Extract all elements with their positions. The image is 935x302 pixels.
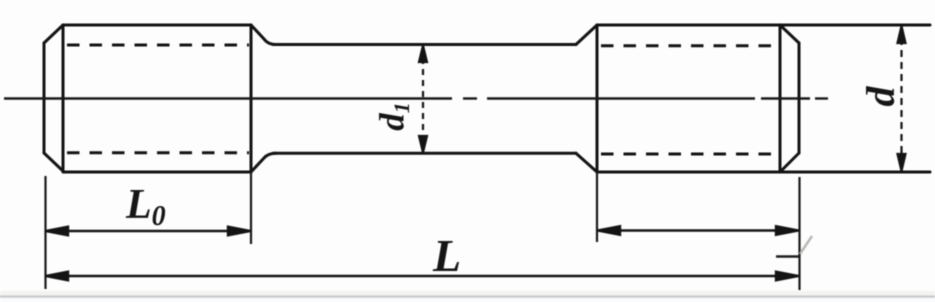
stud right end: bottom chamfer diagonal (780, 153, 799, 172)
svg-text:d: d (858, 86, 903, 107)
left shoulder taper bottom (251, 153, 276, 172)
right thread root bottom dashed (601, 153, 777, 156)
reduced middle section bottom line (273, 152, 576, 155)
left thread root bottom dashed (67, 151, 249, 154)
stud right end: chamfer vertical line (779, 25, 782, 172)
right shoulder taper top (576, 25, 597, 45)
centerline end dash (815, 97, 828, 99)
stud left end: bottom chamfer diagonal (44, 153, 64, 172)
d arrow up (898, 26, 906, 43)
extension line below right shoulder (596, 172, 598, 242)
label d1 (rotated) (373, 102, 415, 131)
centerline (4, 97, 828, 99)
dimension right thread length (598, 226, 799, 235)
stud left end: top chamfer diagonal (44, 25, 63, 43)
svg-text:L: L (432, 230, 461, 281)
right thread root top dashed (601, 44, 777, 47)
stud left end: chamfer vertical line (62, 25, 65, 172)
stud right end: right vertical edge (798, 43, 801, 153)
small tick near right extension (776, 255, 799, 257)
right shoulder taper bottom (576, 153, 597, 172)
thread root dashed lines (67, 45, 777, 154)
d1 arrow up (419, 46, 427, 63)
stud left end: top outline (63, 24, 251, 27)
left thread root top dashed (67, 44, 249, 47)
extension line below left thread end (250, 172, 252, 244)
dimension d1 line (dashed shaft) (419, 46, 427, 153)
stud right end: thread runout vertical (596, 25, 599, 172)
L0 arrow left (46, 227, 69, 236)
right thread dim arrow right (776, 226, 799, 235)
dimension d line (dashed shaft) (898, 26, 906, 171)
centerline short dash middle (463, 97, 477, 99)
extension lines (46, 172, 800, 290)
extension line right (L) (798, 177, 800, 290)
bottom page edge band (0, 298, 935, 302)
bottom edge line (0, 291, 935, 296)
right thread dim arrow left (598, 226, 621, 235)
faint watermark stroke (800, 236, 812, 254)
centerline segment through right end (761, 97, 810, 99)
L arrow left (46, 272, 69, 281)
dimension L0 (46, 227, 251, 236)
centerline long segment left (4, 97, 452, 99)
L0 arrow right (228, 227, 251, 236)
stud right end: bottom outline + d extension (597, 171, 930, 174)
stud right end: top chamfer diagonal (780, 25, 799, 43)
reduced middle section top line (273, 43, 576, 46)
stud right end: top outline + d extension (597, 24, 930, 27)
centerline long segment right (487, 97, 755, 99)
label d (rotated) (858, 86, 903, 107)
stud left end: thread runout vertical (250, 25, 253, 172)
extension line left (L0 and L) (44, 176, 46, 289)
d arrow down (898, 154, 906, 171)
stud left end: left vertical edge (43, 43, 46, 153)
stud left end: bottom outline (64, 171, 251, 174)
d1 arrow down (419, 136, 427, 153)
L arrow right (776, 272, 799, 281)
left shoulder taper top (251, 25, 276, 45)
dimension L (46, 272, 799, 281)
